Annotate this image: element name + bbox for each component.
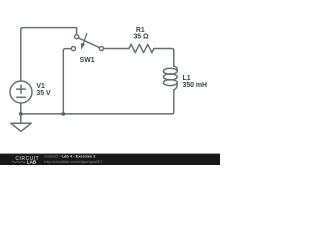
svg-text:35 V: 35 V [36, 90, 51, 97]
svg-text:V1: V1 [36, 83, 45, 90]
svg-text:SW1: SW1 [80, 57, 95, 64]
svg-text:35 Ω: 35 Ω [133, 34, 149, 41]
svg-text:http://circuitlab.com/c6pnrcja: http://circuitlab.com/c6pnrcjaa267 [44, 159, 102, 164]
svg-text:L1: L1 [183, 75, 191, 82]
svg-text:LAB: LAB [27, 160, 37, 165]
svg-text:350 mH: 350 mH [183, 82, 208, 89]
